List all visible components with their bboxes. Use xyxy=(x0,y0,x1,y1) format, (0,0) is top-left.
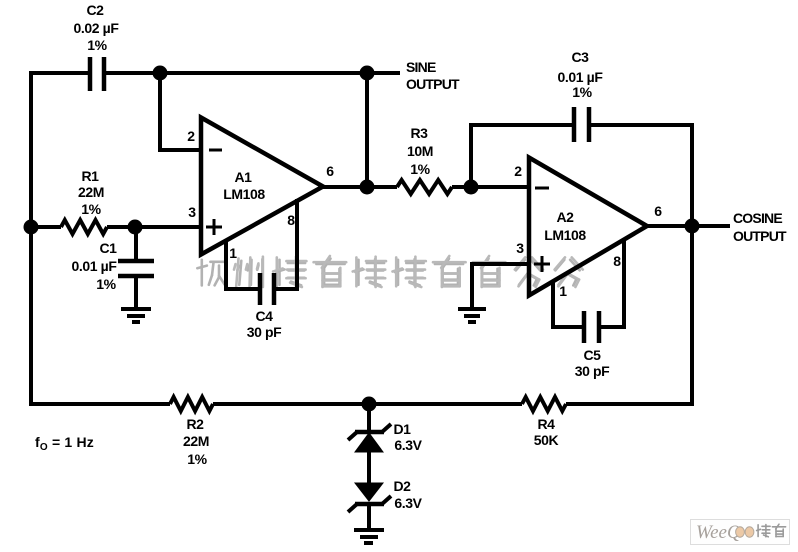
svg-text:8: 8 xyxy=(613,253,621,269)
svg-text:0.01 µF: 0.01 µF xyxy=(72,258,118,274)
svg-text:C5: C5 xyxy=(583,347,601,363)
capacitor C3 xyxy=(574,107,589,142)
svg-text:6.3V: 6.3V xyxy=(394,437,422,453)
label D1 value xyxy=(393,421,422,453)
svg-text:6: 6 xyxy=(326,163,334,179)
svg-text:A1: A1 xyxy=(234,169,252,185)
svg-text:1%: 1% xyxy=(81,201,101,217)
resistor R2 xyxy=(170,397,213,411)
capacitor C4 xyxy=(260,273,274,305)
svg-text:3: 3 xyxy=(516,240,524,256)
resistor R4 xyxy=(522,397,566,411)
svg-text:C2: C2 xyxy=(86,2,104,18)
svg-text:10M: 10M xyxy=(407,143,433,159)
svg-text:OUTPUT: OUTPUT xyxy=(733,228,787,244)
watermark text xyxy=(197,259,579,286)
wire: D1 to D2 xyxy=(367,452,371,483)
svg-text:D1: D1 xyxy=(393,421,411,437)
logo box xyxy=(691,520,790,545)
ground (C1) xyxy=(121,309,151,322)
svg-text:OUTPUT: OUTPUT xyxy=(406,76,460,92)
wire: bottom rail right + right riser + C3 right lead xyxy=(566,125,692,404)
svg-text:0.01 µF: 0.01 µF xyxy=(558,69,604,85)
svg-text:3: 3 xyxy=(188,204,196,220)
wire: R3 to A2 pin2 xyxy=(452,185,529,189)
svg-text:1%: 1% xyxy=(96,276,116,292)
wire: bottom node to D1 xyxy=(367,404,371,433)
resistor R3 xyxy=(397,180,452,194)
node C2/A1 pin2 junction xyxy=(153,66,168,81)
svg-text:COSINE: COSINE xyxy=(733,210,782,226)
node A1 output junction xyxy=(360,180,375,195)
capacitor C5 xyxy=(584,311,599,343)
node bottom rail/D1 junction xyxy=(362,397,377,412)
svg-text:R2: R2 xyxy=(186,416,204,432)
zener diode D1 xyxy=(348,424,391,452)
wire: top rail from C2 to SINE output xyxy=(106,71,400,75)
wire: A2 output to COSINE xyxy=(647,224,730,228)
svg-text:LM108: LM108 xyxy=(544,227,586,243)
wire: left rail to R1 xyxy=(31,225,61,229)
wire: left rail (C2 left lead, left vertical, bottom rail to R2) xyxy=(31,73,170,404)
node SINE OUTPUT xyxy=(406,59,460,92)
label C5 value xyxy=(575,347,610,379)
svg-text:C4: C4 xyxy=(255,308,273,324)
zener diode D2 xyxy=(348,483,391,512)
svg-text:6: 6 xyxy=(654,203,662,219)
label C3 value xyxy=(558,49,604,100)
svg-text:C1: C1 xyxy=(99,240,117,256)
svg-text:0.02 µF: 0.02 µF xyxy=(74,20,120,36)
wire: A1 pin1 lead xyxy=(226,239,258,289)
svg-text:8: 8 xyxy=(287,212,295,228)
svg-text:30 pF: 30 pF xyxy=(575,363,610,379)
label C4 value xyxy=(247,308,282,340)
wire: A2 pin8 lead xyxy=(601,239,624,327)
svg-text:C3: C3 xyxy=(571,49,589,65)
svg-text:2: 2 xyxy=(514,163,522,179)
ground (diode string) xyxy=(354,530,384,543)
node A2 output/COSINE junction xyxy=(685,219,700,234)
svg-text:22M: 22M xyxy=(183,433,209,449)
wire: C3 feedback riser and left lead xyxy=(471,125,572,187)
svg-text:1: 1 xyxy=(559,283,567,299)
wire: R1 to A1 pin3 xyxy=(107,225,201,229)
svg-text:1%: 1% xyxy=(187,451,207,467)
svg-text:A2: A2 xyxy=(556,209,574,225)
svg-text:22M: 22M xyxy=(78,184,104,200)
label C1 value xyxy=(72,240,118,292)
wire: bottom rail between R2 and R4 xyxy=(213,402,522,406)
op-amp A2 xyxy=(529,158,647,296)
svg-text:1%: 1% xyxy=(410,161,430,177)
node R3/A2 pin2 junction xyxy=(464,180,479,195)
label R4 value xyxy=(534,416,559,448)
svg-text:1%: 1% xyxy=(572,84,592,100)
svg-text:R4: R4 xyxy=(537,416,555,432)
wire: D2 to ground xyxy=(367,504,371,530)
label R2 value xyxy=(183,416,209,467)
resistor R1 xyxy=(61,220,107,234)
svg-text:LM108: LM108 xyxy=(223,186,265,202)
svg-text:1: 1 xyxy=(229,245,237,261)
label D2 value xyxy=(393,478,422,511)
svg-text:WeeQ: WeeQ xyxy=(696,522,741,543)
label R1 value xyxy=(78,168,104,217)
svg-text:R1: R1 xyxy=(81,168,99,184)
node R1/C1/A1 pin3 junction xyxy=(128,220,143,235)
svg-text:1%: 1% xyxy=(87,37,107,53)
svg-text:30 pF: 30 pF xyxy=(247,324,282,340)
op-amp A1 xyxy=(201,118,323,255)
svg-text:SINE: SINE xyxy=(406,59,436,75)
label C2 value xyxy=(74,2,120,53)
wire: A1 output xyxy=(323,185,397,189)
svg-text:R3: R3 xyxy=(410,125,428,141)
svg-text:D2: D2 xyxy=(393,478,411,494)
node COSINE OUTPUT xyxy=(733,210,787,244)
svg-text:50K: 50K xyxy=(534,432,559,448)
wire: A2 pin3 lead and ground riser xyxy=(472,264,529,307)
capacitor C1 xyxy=(118,227,154,309)
node SINE output junction xyxy=(360,66,375,81)
svg-text:2: 2 xyxy=(187,128,195,144)
wire: A1 pin8 lead xyxy=(276,199,297,289)
wire: A2 pin1 lead xyxy=(553,281,582,327)
ground (A2 pin3) xyxy=(458,309,486,322)
capacitor C2 xyxy=(90,57,104,91)
label R3 value xyxy=(407,125,433,177)
node left rail/R1 junction xyxy=(24,220,39,235)
wire: SINE node drop to A1 output xyxy=(365,73,369,187)
svg-text:6.3V: 6.3V xyxy=(394,495,422,511)
wire: A1 pin2 drop xyxy=(160,73,201,150)
